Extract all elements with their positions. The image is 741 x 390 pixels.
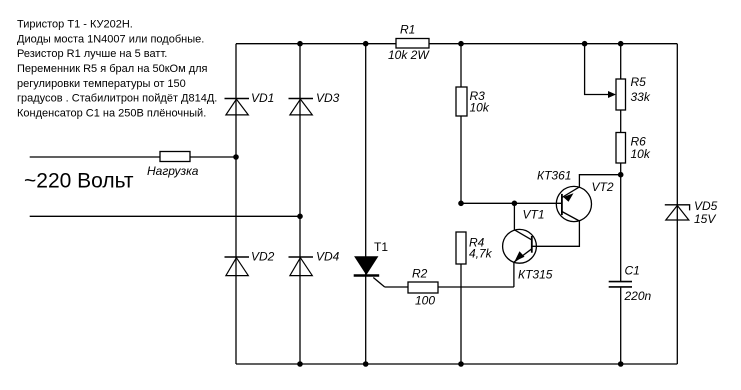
svg-text:Переменник R5 я брал на 50кОм: Переменник R5 я брал на 50кОм для — [17, 63, 208, 75]
wire C1 to bottom — [620, 287, 622, 364]
svg-text:Нагрузка: Нагрузка — [147, 164, 199, 178]
svg-text:T1: T1 — [374, 240, 388, 254]
wire node to C1 — [620, 175, 622, 282]
wire AC input 2 — [30, 215, 300, 217]
note text block — [17, 19, 217, 120]
diode VD4 — [289, 250, 340, 276]
wire R3 branch top — [460, 44, 462, 87]
node top R3 — [458, 41, 464, 47]
svg-text:VT2: VT2 — [592, 180, 614, 194]
svg-text:220n: 220n — [624, 289, 652, 303]
svg-text:градусов . Стабилитрон пойдёт: градусов . Стабилитрон пойдёт Д814Д. — [17, 93, 217, 105]
wire left vertical VD1/VD2 branch — [235, 44, 237, 364]
wire bottom horizontal — [236, 363, 677, 365]
resistor R3 — [456, 87, 490, 116]
wire top horizontal right of R1 — [429, 43, 677, 45]
diode VD2 — [225, 250, 275, 276]
node bottom VD4 — [297, 361, 303, 367]
svg-text:VD1: VD1 — [251, 91, 274, 105]
wire R5 to R6 — [620, 110, 622, 133]
wire VD3/VD4 branch — [299, 44, 301, 364]
thyristor T1 — [354, 240, 389, 287]
svg-text:R2: R2 — [412, 267, 428, 281]
svg-text:33k: 33k — [631, 90, 651, 104]
wire thyristor branch — [365, 44, 367, 364]
svg-text:15V: 15V — [694, 212, 716, 226]
wire right vertical VD5 branch — [676, 44, 678, 364]
node VT1 collector — [512, 201, 518, 207]
node R3 R4 — [458, 201, 464, 207]
resistor R1 — [388, 23, 430, 63]
svg-text:Тиристор Т1 - КУ202Н.: Тиристор Т1 - КУ202Н. — [17, 19, 133, 31]
resistor R4 — [456, 232, 493, 264]
node top R5 — [618, 41, 624, 47]
svg-text:VD3: VD3 — [316, 91, 340, 105]
node R6 VT2 C1 — [618, 172, 624, 178]
node bottom thyristor — [363, 361, 369, 367]
node AC2 — [297, 214, 303, 220]
wire VT1 emitter down — [513, 262, 515, 287]
node bottom R4 — [458, 361, 464, 367]
node top thyristor — [363, 41, 369, 47]
wire potentiometer wiper — [585, 44, 609, 95]
node top wiper — [582, 41, 588, 47]
transistor VT2 KT361 — [537, 169, 614, 222]
wire AC input 1 — [30, 156, 160, 158]
svg-text:10k: 10k — [470, 101, 490, 115]
wire VT2 emitter up — [579, 175, 620, 187]
wire VT1 collector up — [513, 203, 515, 230]
svg-text:10k 2W: 10k 2W — [388, 48, 430, 62]
svg-text:~220 Вольт: ~220 Вольт — [24, 170, 134, 193]
svg-text:4,7k: 4,7k — [469, 247, 493, 261]
svg-text:C1: C1 — [625, 264, 640, 278]
svg-text:КТ361: КТ361 — [537, 169, 571, 183]
wire R2 gate wire — [385, 286, 408, 288]
wire R6 to node — [620, 163, 622, 175]
svg-text:КТ315: КТ315 — [518, 268, 553, 282]
wire VT2 collector to VT1 base — [532, 221, 580, 246]
svg-text:VT1: VT1 — [523, 208, 545, 222]
node bottom C1 — [618, 361, 624, 367]
svg-text:R5: R5 — [631, 75, 647, 89]
wire top horizontal left of R1 — [236, 43, 396, 45]
diode VD3 — [289, 91, 340, 115]
svg-text:Диоды моста 1N4007 или подобны: Диоды моста 1N4007 или подобные. — [17, 33, 204, 45]
diode VD1 — [225, 91, 275, 115]
svg-text:R1: R1 — [400, 23, 415, 37]
svg-text:Резистор R1 лучше на 5 ватт.: Резистор R1 лучше на 5 ватт. — [17, 48, 167, 60]
resistor R6 — [616, 133, 651, 164]
wire R4 below to bottom — [460, 264, 462, 364]
wire R5 top — [620, 44, 622, 79]
node AC1 — [233, 154, 239, 160]
transistor VT1 KT315 — [503, 208, 553, 282]
wire R2 to VT1 emitter — [438, 286, 514, 288]
svg-text:10k: 10k — [631, 147, 651, 161]
svg-text:VD4: VD4 — [316, 250, 340, 264]
wire mid node to VT2 base — [461, 202, 562, 204]
svg-text:Конденсатор С1 на 250В плёночн: Конденсатор С1 на 250В плёночный. — [17, 107, 206, 119]
svg-text:100: 100 — [415, 294, 435, 308]
zener diode VD5 — [665, 199, 718, 226]
resistor R2 — [408, 267, 438, 308]
svg-text:VD5: VD5 — [694, 199, 718, 213]
node top VD3 — [297, 41, 303, 47]
svg-text:VD2: VD2 — [251, 250, 275, 264]
svg-text:регулировки температуры от 150: регулировки температуры от 150 — [17, 78, 186, 90]
wire R3 to node — [460, 116, 462, 203]
potentiometer R5 — [608, 75, 651, 110]
wire AC input 1 right of load — [190, 156, 236, 158]
resistor load Нагрузка — [147, 152, 199, 179]
capacitor C1 — [609, 264, 652, 304]
